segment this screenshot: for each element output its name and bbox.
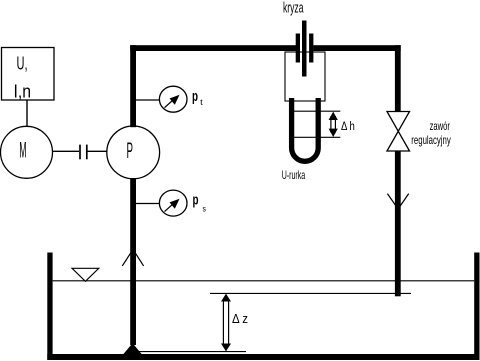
svg-text:s: s [203,204,206,214]
pipe right vertical upper segment [395,45,401,112]
U-tube upper meniscus line [289,110,340,112]
suction foot strainer [123,343,141,354]
manometer chamber box [285,52,325,101]
svg-text:P: P [127,138,134,163]
control valve [387,112,410,152]
svg-text:zawór: zawór [430,119,450,133]
water level mark triangle [72,268,99,281]
gauge pt connector [136,99,160,101]
flow arrow down on right pipe [387,194,408,209]
svg-text:t: t [200,97,203,107]
svg-text:Δ h: Δ h [341,121,355,133]
coupling shaft motor side [53,150,79,152]
orifice plate center bar [302,21,307,77]
water surface line [53,280,475,282]
svg-text:p: p [192,89,198,105]
pipe top horizontal right segment [313,45,400,51]
svg-text:M: M [19,138,26,163]
svg-text:U,: U, [17,54,28,74]
delta-h dimension arrow [329,112,338,137]
wire box to motor [26,100,28,127]
flow arrow up on suction pipe [122,249,143,266]
pressure gauge pt [159,86,187,112]
pipe discharge vertical above pump [130,45,136,127]
ps label [193,193,206,214]
svg-text:kryza: kryza [283,0,304,16]
delta-z dimension arrow [221,294,231,352]
motor M [1,126,53,178]
svg-text:U-rurka: U-rurka [282,168,306,182]
orifice flange left bar [296,34,300,63]
svg-text:regulacyjny: regulacyjny [411,133,451,147]
svg-text:Δ z: Δ z [232,312,248,326]
coupling bars [80,145,87,160]
svg-text:I,n: I,n [14,81,32,101]
instrument box U,I,n [2,48,55,102]
tank left wall [47,253,52,361]
tank right wall [474,253,479,361]
delta-z upper reference line [210,292,411,294]
tank bottom [47,354,479,360]
delta-z lower reference line [139,351,246,353]
pressure gauge ps [159,190,187,216]
coupling shaft pump side [88,150,108,152]
orifice flange right bar [309,34,313,63]
pipe suction vertical below pump [130,178,136,345]
pipe right vertical lower segment [395,151,401,296]
gauge ps connector [136,203,160,205]
pump P [107,126,160,179]
pt label [192,89,203,107]
U-tube lower meniscus line [289,136,340,138]
pipe top horizontal left segment [130,45,296,51]
U-tube manometer [292,98,319,161]
svg-text:p: p [193,193,199,209]
